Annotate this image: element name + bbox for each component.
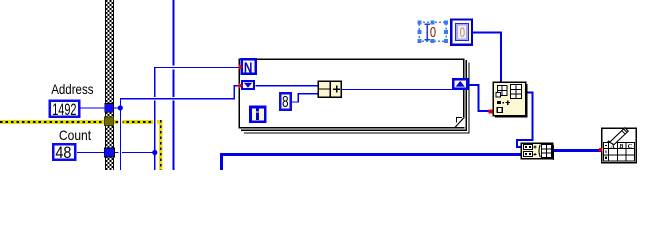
spreadsheet grid: [604, 143, 635, 162]
red feed arrow into N: [239, 64, 243, 70]
wire: vertical array net x=173 (2px): [172, 0, 174, 170]
wire: thick 1D array wire from bottom edge to build array: [222, 155, 521, 170]
tall 2x3 array glyph: [511, 85, 522, 99]
error wire (dark yellow dashed), horizontal then down: [0, 120, 163, 171]
merge arrows: [534, 146, 537, 156]
pencil: [607, 128, 629, 145]
text edit I-beam cursor: [425, 24, 430, 39]
wire: vertical net x=155 with corner to N terminal: [154, 68, 241, 171]
white gaps in error wire where blue wires cross: [118, 120, 120, 125]
wire: add output to right shift register: [342, 89, 453, 90]
element glyph row 2: [524, 152, 533, 157]
svg-text:B: B: [618, 143, 623, 150]
wire: right shift register out of loop to replace-array node: [469, 85, 494, 111]
output 2x3 array glyph: [542, 145, 552, 158]
svg-text:0: 0: [460, 24, 466, 40]
right shift register (up arrow): [453, 79, 467, 88]
add function: [318, 81, 341, 97]
wire: junction down to bottom edge: [120, 108, 121, 170]
iteration terminal i: [250, 107, 265, 122]
svg-text:8: 8: [282, 94, 289, 111]
For loop main border: [239, 59, 464, 127]
svg-text:0: 0: [430, 24, 436, 41]
svg-text:48: 48: [55, 144, 71, 162]
wire: Count constant to junction dot: [77, 152, 152, 153]
sequence structure film-strip border (right edge of frame): [105, 0, 114, 170]
wire: Address constant to junction: [81, 107, 122, 108]
replace array subset node: [493, 82, 527, 117]
For loop stacked layer 2: [241, 60, 466, 130]
svg-text:Count: Count: [59, 127, 91, 143]
numeric constant 48: [52, 143, 77, 162]
tunnel: Count wire through sequence border: [104, 148, 114, 157]
svg-text:1492: 1492: [52, 101, 76, 119]
svg-text:N: N: [244, 60, 253, 76]
build array node: [521, 143, 554, 160]
left shift register (down arrow): [242, 81, 254, 89]
wire: 8 constant to add lower input: [292, 94, 319, 102]
element glyph row 1: [524, 145, 533, 150]
junction dot on Address wire: [118, 105, 123, 110]
array element box with 0: [451, 20, 472, 45]
array bracket: [539, 145, 540, 158]
coercion dot at replace-array input: [489, 110, 493, 114]
red feed arrow into shift register: [239, 83, 243, 89]
tunnel: error wire through sequence border (olive): [105, 117, 114, 126]
For loop stacked layer 3 (outermost): [244, 62, 469, 132]
selected numeric constant 0 (marching ants + handles): [417, 20, 448, 43]
coercion dot at write VI input: [599, 148, 603, 152]
wire: build array output to write-file VI: [553, 149, 602, 152]
write to spreadsheet file VI: [602, 128, 637, 163]
loop count terminal N: [242, 59, 256, 76]
wire: left shift register to add function: [256, 85, 318, 86]
index marks: [497, 101, 501, 104]
svg-text:Address: Address: [51, 81, 93, 97]
page curl at loop bottom-right corner: [454, 117, 465, 128]
wire: junction up then right to left shift register: [120, 86, 241, 108]
junction dot on Count wire: [152, 150, 157, 155]
numeric constant 8: [279, 92, 292, 111]
wire: array constant down to replace-array node top: [472, 32, 501, 82]
small 2x2 array glyph: [496, 86, 507, 98]
numeric constant 1492: [49, 100, 81, 120]
wire: replace-array node output down to build array: [517, 93, 532, 147]
tunnel: Address wire through sequence border: [105, 104, 114, 113]
